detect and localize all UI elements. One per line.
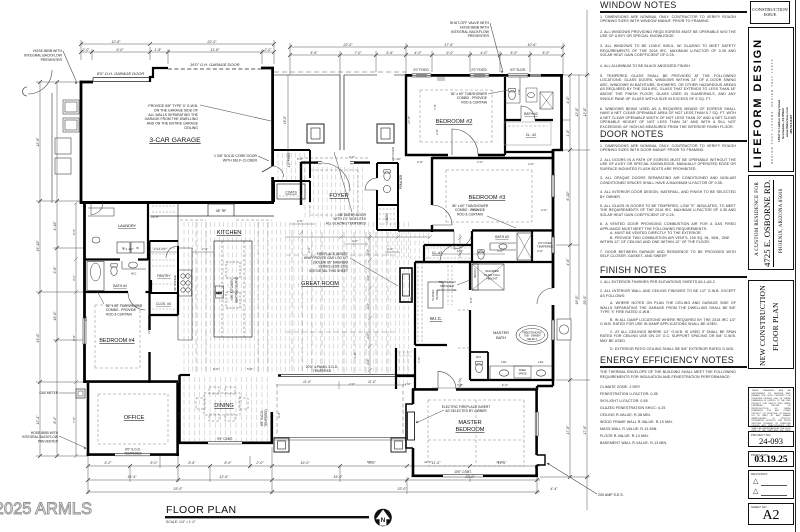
svg-text:1'-6": 1'-6" (353, 351, 357, 358)
right wall step at CL2 (553, 149, 563, 151)
svg-text:GARAGE FROM THE DWELLING: GARAGE FROM THE DWELLING (145, 117, 199, 121)
bath4 lav (122, 261, 146, 269)
svg-text:PREVENTER: PREVENTER (468, 34, 490, 38)
bath2 toilet (509, 89, 516, 100)
kitchen island (214, 241, 252, 337)
svg-text:6'-10": 6'-10" (566, 191, 570, 201)
bath4 south wall (85, 291, 150, 293)
bath4 door arc (128, 293, 146, 311)
svg-text:10'0" CSMT.: 10'0" CSMT. (454, 470, 472, 474)
svg-text:12'-8": 12'-8" (407, 115, 411, 124)
svg-text:8'-8": 8'-8" (72, 334, 76, 341)
svg-text:2'-6": 2'-6" (435, 128, 439, 136)
porch wing wall left (340, 75, 344, 150)
title block: revisions box (748, 470, 794, 499)
mbath hall dashes (458, 310, 470, 348)
hose-bibb note bottom left (22, 431, 59, 443)
title block: project address box (748, 175, 794, 270)
patio slab edge (274, 437, 406, 440)
title block: project number box (748, 431, 794, 447)
svg-text:17'-6": 17'-6" (566, 425, 570, 435)
svg-text:BATH #3: BATH #3 (495, 235, 509, 239)
garage right wall lower segment (271, 177, 274, 203)
title block: construction issue box (750, 1, 790, 24)
svg-text:ALL WALLS SEPARATING THE: ALL WALLS SEPARATING THE (148, 113, 198, 117)
svg-text:PROVIDE 5/8" TYPE 'X' G.W.B.: PROVIDE 5/8" TYPE 'X' G.W.B. (148, 104, 198, 108)
knee space (514, 366, 531, 378)
svg-text:5'-0": 5'-0" (247, 367, 254, 371)
office ceiling dashed (98, 394, 168, 444)
bath3 tub (490, 233, 532, 260)
svg-text:9'-0": 9'-0" (277, 411, 281, 418)
svg-text:1'-10": 1'-10" (393, 157, 402, 161)
office east wall (176, 383, 179, 456)
interior small dimension labels (84, 88, 548, 464)
office window 6'0 SGD (115, 453, 150, 455)
svg-text:5'-6": 5'-6" (386, 51, 394, 55)
extra great room ceiling dashed lines (286, 232, 398, 374)
svg-text:BATH #2: BATH #2 (524, 112, 538, 116)
svg-text:GREAT ROOM: GREAT ROOM (301, 281, 339, 287)
svg-text:7'-0": 7'-0" (72, 416, 76, 423)
svg-text:POWDER: POWDER (399, 174, 403, 189)
dim 16-8 right of garage (287, 75, 289, 163)
svg-text:7'-0": 7'-0" (354, 51, 362, 55)
svg-text:5'-0": 5'-0" (510, 51, 518, 55)
svg-text:DINING: DINING (214, 403, 234, 409)
mbed east wall (535, 389, 538, 477)
window bed2 top 1 (412, 74, 528, 76)
range burners (179, 270, 192, 296)
shut-off valve note (450, 21, 490, 38)
svg-text:W.C.: W.C. (476, 355, 482, 359)
svg-text:HOSE-BIBB WITH: HOSE-BIBB WITH (460, 25, 489, 29)
svg-text:ROD & CURTAIN: ROD & CURTAIN (457, 212, 483, 216)
svg-text:+36" KITCHEN: +36" KITCHEN (230, 279, 234, 301)
bed4 tub/shower note (106, 304, 143, 316)
patio dim line (276, 381, 406, 389)
bed4 ceiling dashed (95, 305, 140, 368)
garage bottom wall (80, 201, 274, 204)
FINISH NOTES section (600, 265, 748, 355)
svg-text:KITCHEN: KITCHEN (217, 230, 242, 236)
porch column with inner square (307, 124, 324, 143)
note: solid core door (214, 154, 258, 162)
svg-text:11'-8": 11'-8" (211, 48, 221, 52)
svg-text:2'-11 1/2": 2'-11 1/2" (153, 247, 168, 251)
svg-text:11'-6": 11'-6" (496, 460, 505, 464)
garage left wall (80, 81, 83, 203)
windows right wall (552, 175, 555, 340)
freestanding tub (516, 326, 548, 345)
svg-text:4'-10": 4'-10" (53, 221, 57, 231)
svg-text:AND ON THE ENTIRE GARAGE: AND ON THE ENTIRE GARAGE (147, 122, 199, 126)
svg-text:CLOS. #4: CLOS. #4 (156, 302, 171, 306)
bed2 ceiling dashed (420, 90, 492, 142)
svg-text:4'-0": 4'-0" (414, 51, 422, 55)
svg-text:12'-8": 12'-8" (111, 40, 121, 44)
svg-text:AS SELECTED BY OWNER: AS SELECTED BY OWNER (445, 409, 487, 413)
right exterior wall mid (552, 149, 555, 381)
svg-text:KNEE: KNEE (519, 368, 526, 372)
svg-text:2'-0": 2'-0" (348, 382, 356, 386)
laundry sink (92, 237, 100, 243)
bed3 west wall (431, 157, 433, 232)
svg-text:2'0" FIXED: 2'0" FIXED (471, 68, 487, 72)
yard wall stub (23, 87, 28, 96)
svg-text:9'0" CSMT.: 9'0" CSMT. (217, 437, 233, 441)
dim tick marks top (79, 42, 565, 57)
linen shelves dashed (379, 209, 396, 224)
ses niche (537, 455, 545, 465)
bedroom2 door arc (452, 129, 478, 155)
svg-text:PREVENTER: PREVENTER (41, 58, 63, 62)
svg-text:17'-6": 17'-6" (444, 43, 454, 47)
svg-text:5'-0": 5'-0" (367, 460, 374, 464)
wc room (470, 352, 488, 380)
svg-text:5'0" SLDR.: 5'0" SLDR. (510, 68, 526, 72)
svg-text:40" RANGE: 40" RANGE (173, 275, 177, 291)
svg-text:8'0" O.H. GARAGE DOOR: 8'0" O.H. GARAGE DOOR (97, 71, 144, 76)
16ft garage door dashed opening (168, 68, 261, 70)
svg-text:2'-0": 2'-0" (366, 248, 370, 256)
powder toilet (383, 170, 390, 193)
svg-text:2'-0": 2'-0" (81, 48, 90, 52)
svg-text:4'-4": 4'-4" (387, 247, 394, 251)
bedroom2 west wall (405, 74, 407, 156)
svg-text:BATH #4: BATH #4 (113, 284, 127, 288)
bed4 south wall (85, 380, 179, 383)
svg-text:3'-2": 3'-2" (72, 274, 76, 281)
svg-text:19'-0": 19'-0" (333, 475, 343, 479)
svg-text:8'-2": 8'-2" (53, 416, 57, 424)
bed3 ceiling dashed (446, 170, 532, 222)
fireplace note (304, 252, 348, 273)
svg-text:11'-6": 11'-6" (368, 380, 377, 384)
svg-text:1 3/8" SOLID CORE DOOR: 1 3/8" SOLID CORE DOOR (214, 154, 258, 158)
pantry door arc (166, 246, 178, 258)
dining east wall (270, 412, 273, 444)
svg-text:SEATING ISLAND: SEATING ISLAND (235, 276, 239, 303)
svg-text:22'-0": 22'-0" (342, 43, 353, 47)
great room long dashed ceiling lines (292, 230, 354, 375)
svg-text:7'-0": 7'-0" (417, 356, 421, 363)
svg-text:2'-8": 2'-8" (348, 155, 356, 159)
svg-text:TEMPERED: TEMPERED (124, 452, 142, 456)
garage top jog wall (150, 68, 168, 82)
svg-text:ENCLOSURE: ENCLOSURE (437, 288, 456, 292)
svg-text:CEILING: CEILING (184, 126, 198, 130)
svg-text:LAUNDRY: LAUNDRY (118, 224, 137, 228)
washer dryer boxes (117, 242, 144, 253)
svg-text:FOYER: FOYER (329, 193, 348, 199)
wood floor dashed hatch (184, 153, 428, 441)
svg-text:BEDROOM #4: BEDROOM #4 (99, 338, 134, 344)
bath2 tub note (451, 92, 488, 104)
svg-text:1'-8": 1'-8" (154, 48, 162, 52)
svg-text:2'-0": 2'-0" (201, 247, 209, 251)
svg-text:SHUT-OFF VALVE WITH: SHUT-OFF VALVE WITH (450, 21, 490, 25)
bed4 east wall (148, 315, 150, 383)
svg-text:ON THE GARAGE SIDE OF: ON THE GARAGE SIDE OF (154, 108, 198, 112)
svg-text:SELECT: SELECT (527, 338, 537, 341)
svg-text:3'-0": 3'-0" (457, 383, 464, 387)
dining window 9'0 CSMT (208, 442, 242, 444)
DOOR NOTES section (600, 129, 748, 264)
svg-text:W: W (136, 246, 139, 250)
entry door note (326, 213, 367, 225)
svg-text:10'-6": 10'-6" (527, 43, 537, 47)
bench dashed (152, 206, 176, 212)
svg-text:CL. #3: CL. #3 (432, 251, 442, 255)
svg-text:4'-0": 4'-0" (366, 302, 370, 309)
svg-text:4'-0": 4'-0" (541, 208, 548, 212)
leader from door note (258, 156, 269, 161)
right exterior wall upper (560, 74, 563, 150)
svg-text:12'-6": 12'-6" (583, 107, 587, 117)
svg-text:16'0" O.H. GARAGE DOOR: 16'0" O.H. GARAGE DOOR (190, 62, 240, 67)
svg-text:SINK: SINK (216, 291, 222, 295)
svg-text:LAV.: LAV. (538, 360, 544, 364)
coats closet (277, 184, 305, 199)
svg-text:19'-0": 19'-0" (300, 461, 310, 465)
garage top-right corner wall (261, 67, 273, 166)
svg-text:PREVENTER: PREVENTER (38, 439, 59, 443)
svg-text:ROD & CURTAIN: ROD & CURTAIN (461, 100, 487, 104)
svg-text:3'-0": 3'-0" (497, 249, 504, 253)
svg-text:1'-2": 1'-2" (177, 411, 181, 418)
dim row bed2 top (290, 43, 563, 75)
svg-text:17'-6": 17'-6" (583, 425, 587, 435)
north arrow (374, 509, 392, 527)
svg-text:ALL GLAZING TEMPERED: ALL GLAZING TEMPERED (326, 221, 367, 225)
svg-text:4'-0": 4'-0" (480, 51, 488, 55)
dim row garage top 1 (81, 40, 274, 64)
svg-text:COATS: COATS (285, 191, 297, 195)
interior dim ticks (148, 224, 537, 388)
svg-text:MASTER: MASTER (493, 331, 509, 335)
entry sidelites (318, 161, 354, 163)
svg-text:TEMPERED: TEMPERED (264, 408, 268, 426)
svg-text:1'0" FXED: 1'0" FXED (287, 152, 291, 167)
dining south wall w/ window (178, 441, 273, 444)
svg-text:BENCH: BENCH (473, 268, 477, 277)
svg-text:BEDROOM #2: BEDROOM #2 (436, 119, 473, 125)
kitchen sink in island (216, 286, 224, 298)
svg-text:INTEGRAL BACKFLOW: INTEGRAL BACKFLOW (24, 53, 63, 57)
mbed south wall w/ window (412, 474, 538, 477)
svg-text:2'-0": 2'-0" (255, 461, 264, 465)
svg-text:9'-0": 9'-0" (116, 48, 124, 52)
svg-text:15'-0": 15'-0" (36, 333, 40, 343)
svg-text:7'-6": 7'-6" (433, 103, 437, 110)
bedroom2/bath2 wall (505, 77, 553, 155)
svg-text:INTEGRAL BACKFLOW: INTEGRAL BACKFLOW (451, 30, 490, 34)
svg-text:1'-1 1/2": 1'-1 1/2" (122, 247, 134, 251)
svg-text:4'-0": 4'-0" (537, 249, 544, 253)
laundry west exterior wall (83, 202, 86, 383)
svg-text:6'-4": 6'-4" (457, 249, 464, 253)
interior dim chain through great room (368, 232, 372, 374)
svg-text:6'-0": 6'-0" (469, 296, 473, 303)
title block: print date box (748, 451, 794, 467)
bath4 east wall (150, 280, 152, 292)
svg-text:12'-0": 12'-0" (147, 325, 151, 334)
svg-text:9'-2": 9'-2" (104, 461, 112, 465)
bath4 toilet (111, 264, 117, 276)
kitchen upper cabinets dashed (180, 219, 272, 221)
mbed east window (535, 412, 538, 436)
foyer ceiling dashed (310, 170, 358, 215)
mbed door arc (438, 371, 456, 389)
porch column right (377, 124, 394, 143)
trash pad rectangles (55, 100, 79, 174)
svg-text:4'-6": 4'-6" (566, 258, 570, 266)
svg-text:33'-0": 33'-0" (397, 487, 407, 491)
kitchen ceiling dashed long verticals (196, 222, 206, 372)
ARMLS watermark (0, 500, 92, 519)
svg-text:2'-8": 2'-8" (366, 358, 370, 366)
svg-text:3'-6": 3'-6" (53, 266, 57, 274)
svg-text:20'-0": 20'-0" (583, 295, 587, 306)
svg-text:4'-4": 4'-4" (550, 487, 558, 491)
title block: sheet title box (748, 280, 794, 369)
svg-text:W.C.: W.C. (131, 272, 137, 276)
svg-text:BEDROOM #3: BEDROOM #3 (469, 195, 506, 201)
svg-text:12'-4": 12'-4" (36, 415, 40, 425)
cl2 south wall (505, 151, 553, 153)
svg-text:2'-0": 2'-0" (263, 48, 272, 52)
leader from GWB note to garage wall (200, 105, 271, 121)
svg-text:8'-0": 8'-0" (150, 461, 158, 465)
bed3 south wall (398, 229, 553, 231)
sheet right border line (795, 0, 796, 532)
laundry south wall (85, 258, 149, 260)
office west wall (87, 383, 90, 456)
svg-text:HEIGHT: HEIGHT (486, 277, 498, 281)
entry door leaf+arc (322, 163, 350, 191)
svg-text:6'-0": 6'-0" (213, 367, 220, 371)
svg-text:BEDROOM: BEDROOM (456, 427, 485, 433)
svg-text:PANTRY: PANTRY (157, 274, 171, 278)
top exterior wall bedroom2 wing (406, 74, 563, 77)
powder pedestal sink (383, 185, 390, 192)
fireplace inset (406, 404, 415, 448)
fireplace on east wall (400, 268, 412, 302)
svg-text:5'-0": 5'-0" (84, 314, 88, 321)
gas meter (76, 389, 85, 398)
patio column left (274, 438, 289, 452)
hall north wall / bed3 top (432, 157, 553, 159)
svg-text:FLOOR PLAN: FLOOR PLAN (166, 504, 237, 516)
svg-text:12'-8": 12'-8" (36, 137, 40, 147)
leader hose-bibb to wall (63, 51, 77, 83)
foyer front wall w/ entry door (301, 161, 370, 163)
svg-text:TEMPERED: TEMPERED (537, 245, 553, 249)
svg-text:5'-0": 5'-0" (297, 157, 304, 161)
svg-text:SEE DETAIL THIS SHEET: SEE DETAIL THIS SHEET (309, 269, 348, 273)
bath2 door arc (521, 106, 535, 120)
svg-text:N: N (381, 517, 386, 524)
wic shelves dashed (418, 262, 452, 342)
lav counter bottom (490, 366, 553, 380)
right wall step to master bedroom (537, 380, 553, 390)
laundry east wall (147, 203, 149, 260)
great room south glass wall (281, 376, 412, 378)
bedroom2 south wall (405, 154, 505, 156)
svg-text:12'-6": 12'-6" (219, 475, 229, 479)
dim line across foyer/great room boundary (285, 231, 432, 239)
patio column right (391, 438, 406, 452)
garage top-left wall segment (80, 81, 93, 84)
foyer porch step dashes (300, 157, 368, 159)
48in RF box (208, 204, 234, 216)
svg-text:BATH: BATH (496, 336, 506, 340)
bed2 window sill marks (437, 78, 445, 80)
mbed window 10'0 CSMT (443, 475, 483, 477)
bed4 window on west wall (83, 318, 86, 344)
svg-text:5'-6": 5'-6" (310, 51, 318, 55)
svg-text:TEMPERED: TEMPERED (313, 369, 332, 373)
ENERGY EFFICIENCY NOTES section (600, 355, 748, 452)
svg-text:15'-10": 15'-10" (36, 240, 40, 252)
porch slab thin outline (274, 74, 406, 76)
svg-text:3-CAR GARAGE: 3-CAR GARAGE (149, 137, 201, 144)
bath2 shower (540, 92, 553, 109)
mbath walls (470, 262, 553, 380)
dining table dashed (196, 387, 248, 421)
svg-text:16'-4": 16'-4" (127, 475, 137, 479)
bed3 hall door arc (454, 231, 472, 249)
tempered enclosure note (437, 280, 456, 292)
svg-text:18'-0": 18'-0" (575, 295, 579, 305)
svg-text:2'-6": 2'-6" (296, 219, 304, 223)
foyer west wall (300, 162, 302, 205)
kitchen west counter with range (178, 248, 192, 340)
title block: sheet number box (748, 503, 794, 525)
svg-text:48" RF: 48" RF (216, 209, 226, 213)
svg-text:3'-6": 3'-6" (366, 332, 370, 339)
note: 5/8 type X GWB (145, 104, 199, 130)
title block: LIFEFORM DESIGN logo box (748, 27, 794, 172)
leader shut-off valve (490, 23, 503, 72)
mbath exterior door + equipment pad (552, 262, 554, 381)
svg-text:HOSE-BIBB WITH: HOSE-BIBB WITH (33, 49, 62, 53)
shower label (484, 269, 501, 281)
svg-text:8'-6": 8'-6" (188, 461, 196, 465)
office south wall w/ window (87, 453, 179, 456)
svg-text:OFFICE: OFFICE (124, 415, 145, 421)
svg-text:2'-0": 2'-0" (404, 382, 412, 386)
side yard gate arc (28, 70, 52, 94)
svg-text:11'-6": 11'-6" (424, 460, 433, 464)
wic door arc (440, 245, 457, 262)
dining north opening jamb (180, 374, 191, 376)
svg-text:9'-0": 9'-0" (446, 51, 454, 55)
svg-text:6'-4": 6'-4" (502, 383, 509, 387)
cl2 shelf dashed (504, 122, 551, 145)
svg-text:1'-6": 1'-6" (566, 129, 570, 137)
electric fireplace note (442, 405, 491, 413)
svg-text:4'-6": 4'-6" (528, 162, 535, 166)
svg-text:11'-6": 11'-6" (432, 461, 442, 465)
svg-text:8'-0": 8'-0" (224, 461, 232, 465)
svg-text:11'-6": 11'-6" (303, 380, 312, 384)
laundry counter (88, 208, 114, 216)
bath3 toilet (478, 250, 484, 259)
svg-text:CL. #2: CL. #2 (526, 133, 537, 137)
shower top (472, 264, 504, 290)
